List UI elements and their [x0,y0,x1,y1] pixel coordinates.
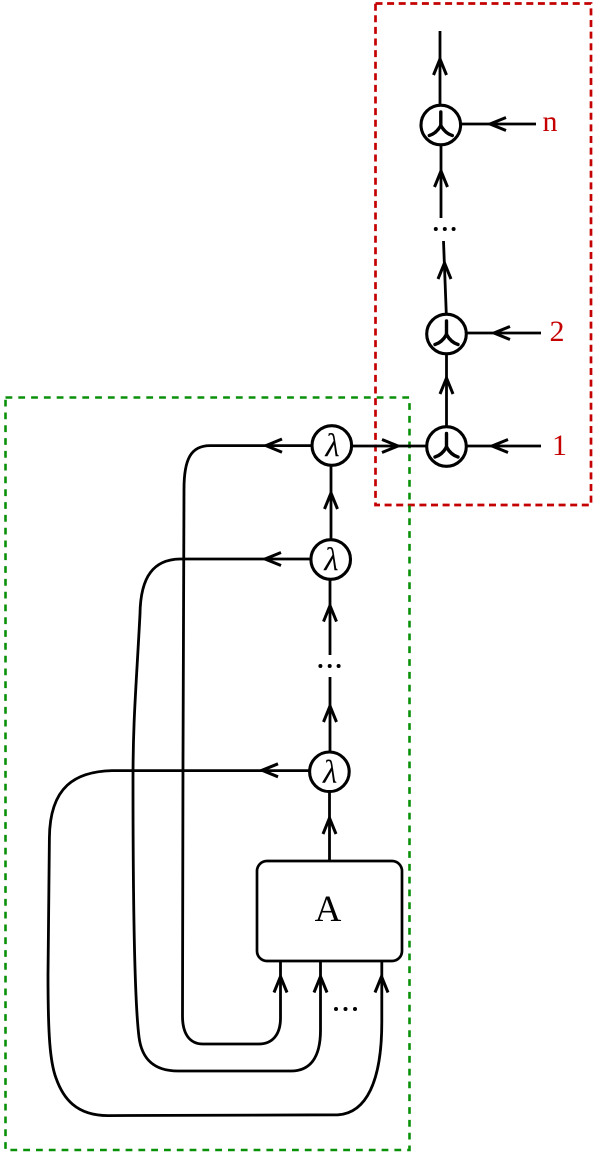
wire: node n to dots [440,145,443,218]
svg-text:λ: λ [323,542,338,578]
dots: ellipsis in lambda spine [318,664,340,668]
wire: node 1 to node 2 [445,354,448,427]
arrowhead up on A port 3 [375,977,388,993]
lambda node 3 [310,752,350,792]
svg-text:n: n [543,105,558,138]
svg-text:1: 1 [552,429,567,462]
wire: lambda2 binder loop to A port 2 [133,559,321,1071]
arrowhead up on lambda2 lower wire [324,606,337,622]
arrowhead up on A-lambda3 wire [323,818,336,834]
arrowhead up on dots-node2 wire [438,263,451,279]
wire: dots to lambda 2 [329,580,332,656]
arrowhead left on argument 1 wire [492,440,508,453]
wire: A box to lambda 3 [328,792,331,862]
svg-text:λ: λ [322,754,337,790]
wire: lambda 2 to lambda 1 [330,466,333,541]
wire: lambda 1 to apply node 1 [352,445,427,448]
svg-text:λ: λ [324,428,339,464]
arrowhead left on lambda1 binder wire [266,439,282,452]
wire: root output above node n [439,31,442,106]
arrowhead left on lambda2 binder wire [265,553,281,566]
green dashed box: abstraction body region [6,398,410,1151]
dots: ellipsis in application spine [434,227,456,231]
arrowhead left on argument n wire [490,118,506,131]
wire: argument 2 into node 2 [467,332,541,335]
arrowhead left on lambda3 binder wire [262,764,278,777]
red dashed box: application spine region [376,4,592,506]
dots: ellipsis between A ports [334,1007,357,1011]
arrowhead left on argument 2 wire [494,327,510,340]
wire: lambda 3 to dots [329,677,332,753]
wire: argument 1 into node 1 [467,445,541,448]
svg-text:2: 2 [550,315,565,348]
lambda node 2 [311,540,351,580]
arrowhead up on node n lower wire [435,171,448,187]
arrowhead up on A port 1 [274,977,287,993]
arrowhead up on lambda2-lambda1 wire [325,493,338,509]
wire: dots to node 2 [444,241,447,314]
arrowhead up on A port 2 [314,977,327,993]
lambda node 1 [312,426,352,466]
apply node 1 [427,427,467,467]
wire: lambda3 binder loop to A port 3 [48,771,382,1116]
arrowhead up on root wire [434,59,447,75]
wire: argument n into node n [461,123,536,126]
svg-text:A: A [315,889,342,930]
arrowhead up on node1-node2 wire [440,378,453,394]
arrowhead right on lambda1-node1 wire [382,440,398,453]
box A: term body [257,861,402,961]
arrowhead up on lambda3 upper wire [324,706,337,722]
apply node n [421,105,461,145]
wire: lambda1 binder loop to A port 1 [183,446,312,1044]
apply node 2 [427,314,467,354]
